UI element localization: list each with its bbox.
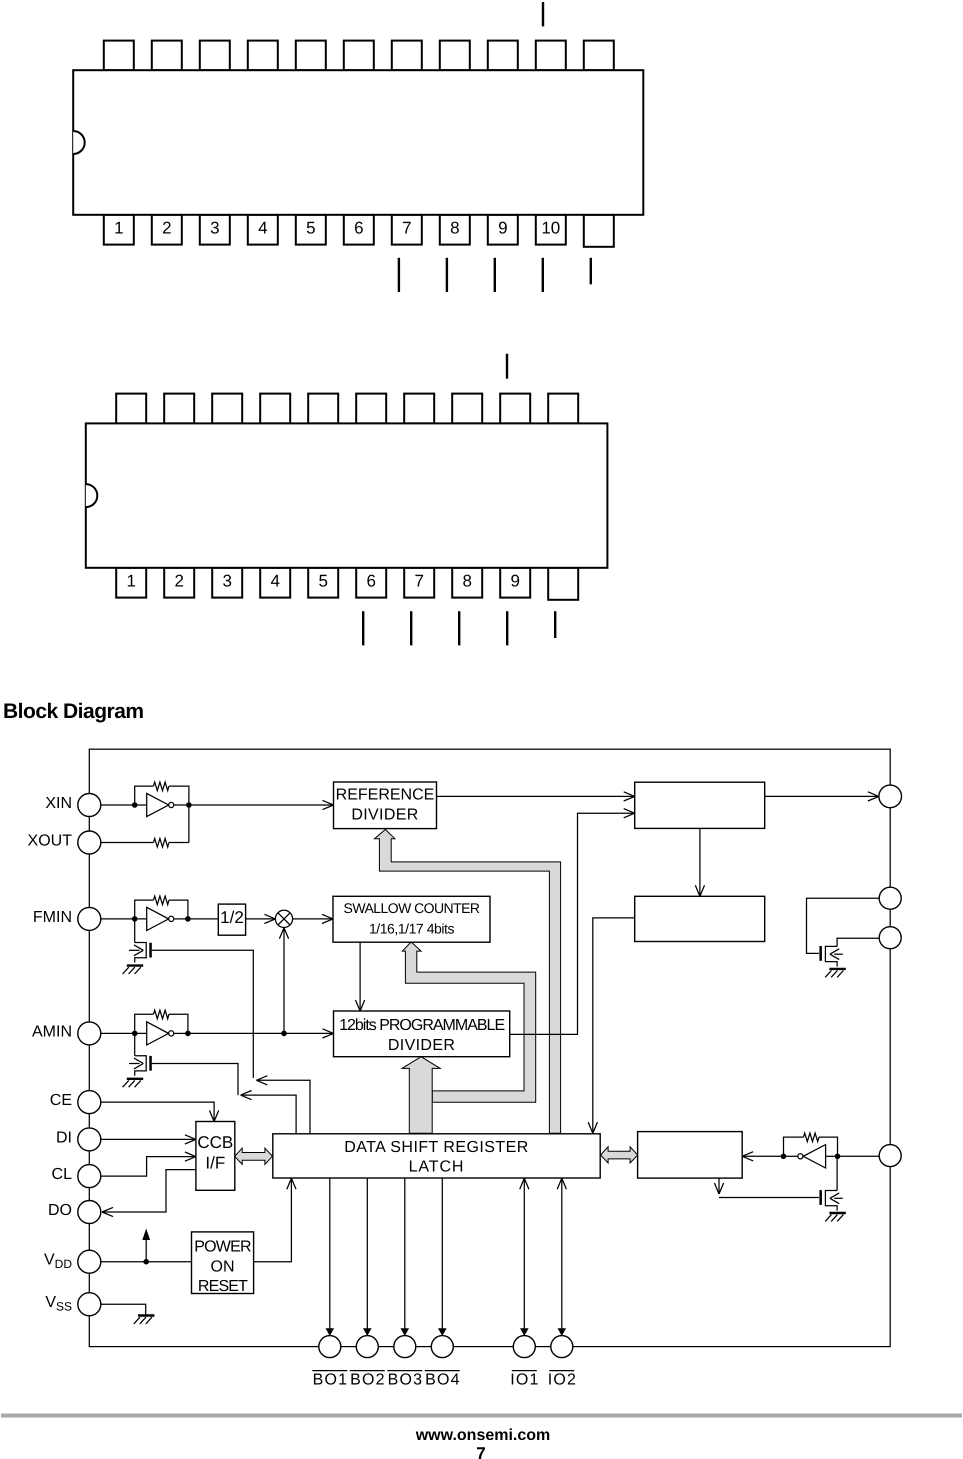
wire Q2 drain to control: [152, 1064, 238, 1096]
wire CL to CCB I/F: [101, 1157, 196, 1177]
svg-text:ON: ON: [211, 1259, 235, 1276]
block SWALLOW COUNTER: [333, 896, 490, 942]
block CCB I/F: [196, 1122, 235, 1191]
wire POWER ON RESET to DATA: [254, 1178, 292, 1261]
svg-text:8: 8: [462, 572, 471, 591]
node BO2: [356, 1336, 378, 1358]
wire FMIN out to 1/2: [188, 918, 218, 920]
package 1 index notch: [73, 131, 85, 154]
wire osc to REFERENCE DIVIDER: [189, 804, 334, 806]
svg-text:SWALLOW COUNTER: SWALLOW COUNTER: [344, 900, 480, 916]
wire pin to Q3 gate: [807, 898, 880, 953]
svg-text:1: 1: [114, 219, 123, 238]
resistor R4 (U3 feedback): [154, 1010, 169, 1019]
bus DATA to 12bits PROGRAMMABLE DIVIDER: [402, 1057, 440, 1134]
bus DATA to right latch box (bidirectional): [601, 1147, 638, 1163]
package 2 body: [86, 423, 608, 567]
node DI: [78, 1128, 101, 1151]
node AMIN: [78, 1022, 101, 1045]
svg-text:DIVIDER: DIVIDER: [388, 1037, 455, 1054]
svg-text:7: 7: [414, 572, 423, 591]
svg-text:Block Diagram: Block Diagram: [3, 700, 144, 723]
svg-text:DATA SHIFT REGISTER: DATA SHIFT REGISTER: [344, 1139, 529, 1156]
ground (Q4 source): [825, 1213, 846, 1221]
node dot FMIN output: [185, 916, 191, 922]
svg-text:8: 8: [450, 219, 459, 238]
svg-text:www.onsemi.com: www.onsemi.com: [415, 1427, 551, 1444]
resistor R5 (U5 feedback): [784, 1133, 838, 1156]
wire feedback left leg: [135, 786, 154, 805]
wire DI to CCB I/F: [101, 1138, 196, 1140]
svg-text:CL: CL: [52, 1166, 73, 1183]
node VDD: [78, 1250, 101, 1273]
wire FMIN to inverter: [101, 918, 147, 920]
wire output latch to Q4 gate: [718, 1178, 720, 1194]
node pin (right, upper): [879, 887, 901, 909]
block DATA SHIFT REGISTER / LATCH: [273, 1134, 600, 1178]
node dot mixer tap: [281, 1031, 287, 1037]
bus DATA to REFERENCE DIVIDER: [375, 830, 561, 1134]
package 1 leader ticks below pins 7-11: [398, 258, 400, 292]
node IO2 buffered: [879, 1145, 901, 1167]
inverter U5 (input buffer): [803, 1145, 825, 1168]
node CL: [78, 1165, 101, 1188]
wire IO2 pin to inverter U5: [838, 1155, 880, 1157]
wire U5 to output latch box: [742, 1155, 783, 1157]
transistor Q4: [819, 1190, 842, 1211]
package 2 leader ticks below pins 6-10: [362, 611, 364, 645]
svg-text:9: 9: [510, 572, 519, 591]
svg-text:VSS: VSS: [45, 1294, 72, 1314]
wire VDD supply stub: [145, 1239, 147, 1262]
svg-text:BO2: BO2: [350, 1372, 386, 1389]
mixer M1: [275, 910, 292, 927]
svg-text:XOUT: XOUT: [28, 833, 73, 850]
wire DATA control to Q2 drain line: [241, 1095, 297, 1133]
svg-text:BO3: BO3: [388, 1372, 424, 1389]
label IO1: [510, 1371, 539, 1389]
node PD out: [879, 785, 902, 808]
wire AMIN to inverter: [101, 1032, 147, 1034]
package 1 leader tick above pin 21: [542, 2, 544, 26]
svg-text:1/16,1/17 4bits: 1/16,1/17 4bits: [369, 921, 455, 937]
bus DATA branch to SWALLOW COUNTER: [402, 942, 535, 1102]
label BO2: [350, 1371, 386, 1389]
node IO2: [551, 1336, 573, 1358]
svg-text:2: 2: [162, 219, 171, 238]
node BO1: [319, 1336, 341, 1358]
svg-text:12bits PROGRAMMABLE: 12bits PROGRAMMABLE: [339, 1017, 504, 1034]
svg-text:6: 6: [366, 572, 375, 591]
svg-text:BO4: BO4: [425, 1372, 461, 1389]
block 1/2 prescaler: [218, 904, 245, 935]
svg-text:IO1: IO1: [510, 1372, 539, 1389]
wire VSS to ground: [101, 1304, 146, 1315]
svg-text:AMIN: AMIN: [32, 1023, 72, 1040]
resistor R2 (XOUT leg): [154, 839, 169, 848]
bus CCB I/F to DATA SHIFT REGISTER (bidirectional): [235, 1148, 273, 1164]
wire phase detector to PD pin: [765, 795, 879, 797]
wire U3 out to node: [174, 1032, 188, 1034]
svg-text:4: 4: [258, 219, 267, 238]
label BO4: [425, 1371, 461, 1389]
svg-text:1/2: 1/2: [220, 908, 244, 927]
wire U2 feedback left leg: [135, 900, 154, 919]
svg-text:POWER: POWER: [194, 1239, 251, 1256]
block REFERENCE DIVIDER: [334, 782, 437, 829]
transistor Q2 (AMIN mute switch): [129, 1033, 152, 1075]
ground (Q3 source): [825, 969, 846, 977]
node dot AMIN output: [185, 1031, 191, 1037]
package 2 bottom pins: [116, 568, 578, 600]
wire U3 feedback right leg: [169, 1014, 188, 1033]
node dot VDD: [143, 1259, 149, 1265]
node CE: [78, 1091, 101, 1114]
wire 12bits divider to phase detector: [510, 813, 635, 1034]
package 1 pin numbers: [114, 219, 560, 238]
wire VDD to POWER ON RESET: [101, 1261, 192, 1263]
package 2 pin numbers: [126, 572, 519, 591]
label BO1: [312, 1371, 348, 1389]
svg-text:4: 4: [270, 572, 279, 591]
transistor Q3: [819, 946, 842, 967]
wire U1 output to node: [174, 804, 189, 806]
node BO4: [431, 1336, 453, 1358]
package 1 top pins: [104, 41, 614, 71]
node pin (right, lower): [879, 927, 901, 949]
svg-text:I/F: I/F: [205, 1153, 225, 1172]
wire CE to CCB I/F: [101, 1102, 214, 1121]
wire REFERENCE DIVIDER to phase detector: [437, 795, 635, 797]
svg-text:XIN: XIN: [45, 795, 72, 812]
wire U3 feedback left leg: [135, 1014, 154, 1033]
svg-text:1: 1: [126, 572, 135, 591]
wire mixer tap up: [283, 928, 285, 1034]
svg-text:5: 5: [306, 219, 315, 238]
package 1 body: [73, 70, 643, 215]
wire R2 to node: [169, 842, 189, 844]
svg-text:BO1: BO1: [313, 1372, 349, 1389]
node dot XIN output: [186, 802, 192, 808]
wire DATA to BO2: [366, 1178, 368, 1332]
wire SWALLOW to 12bits divider: [359, 942, 361, 1011]
wire mixer to SWALLOW COUNTER: [293, 918, 333, 920]
svg-text:LATCH: LATCH: [409, 1159, 465, 1176]
inverter U3 (AMIN amp): [147, 1022, 169, 1045]
outer border: [89, 749, 890, 1346]
block phase detector (right top): [635, 782, 765, 828]
svg-text:3: 3: [210, 219, 219, 238]
wire 1/2 to mixer: [246, 918, 276, 920]
node XIN: [78, 794, 101, 817]
ground (Q2 source): [123, 1079, 144, 1087]
node dot U5 input: [835, 1154, 841, 1160]
wire phase detector to charge pump box: [699, 828, 701, 896]
footer rule: [1, 1414, 962, 1418]
svg-text:6: 6: [354, 219, 363, 238]
wire Q4 drain to node: [836, 1156, 838, 1190]
wire Q3 drain to pin: [837, 938, 879, 946]
package 1 bottom pins: [104, 215, 614, 247]
transistor Q1 (FMIN mute switch): [129, 919, 152, 963]
label BO3: [387, 1371, 423, 1389]
svg-text:DI: DI: [56, 1129, 72, 1146]
svg-text:10: 10: [541, 219, 560, 238]
svg-text:REFERENCE: REFERENCE: [336, 787, 435, 804]
wire charge pump to DATA: [593, 918, 635, 1133]
wire feedback right leg: [169, 786, 189, 842]
svg-text:9: 9: [498, 219, 507, 238]
svg-text:CCB: CCB: [197, 1133, 233, 1152]
svg-text:7: 7: [402, 219, 411, 238]
block 12bits PROGRAMMABLE DIVIDER: [334, 1011, 510, 1057]
wire AMIN to 12bits divider: [188, 1032, 334, 1034]
block output latch (right bottom): [638, 1132, 743, 1179]
resistor R1 (osc feedback): [154, 782, 169, 791]
svg-text:2: 2: [174, 572, 183, 591]
label IO2: [548, 1371, 577, 1389]
package 2 leader tick above pin 9 area: [506, 354, 508, 379]
node dot XIN input: [132, 802, 138, 808]
wire DATA to IO2 (bidirectional): [561, 1178, 563, 1332]
svg-text:CE: CE: [50, 1092, 72, 1109]
svg-text:IO2: IO2: [548, 1372, 577, 1389]
node FMIN: [78, 907, 101, 930]
svg-text:FMIN: FMIN: [33, 909, 72, 926]
svg-text:VDD: VDD: [44, 1252, 72, 1272]
wire U5 out to node: [784, 1155, 798, 1157]
wire DATA control to Q1 drain line: [256, 1080, 310, 1133]
inverter U2 (FMIN amp): [147, 907, 169, 930]
wire DATA to BO3: [404, 1178, 406, 1332]
node dot U5 output: [781, 1154, 787, 1160]
package 2 index notch: [86, 484, 98, 507]
wire DATA to BO4: [441, 1178, 443, 1332]
node dot AMIN input: [132, 1031, 138, 1037]
node BO3: [394, 1336, 416, 1358]
resistor R3 (U2 feedback): [154, 896, 169, 905]
inverter U1 (crystal osc): [147, 793, 169, 816]
package 2 top pins: [116, 394, 578, 424]
wire DATA to IO1 (bidirectional): [523, 1178, 525, 1332]
ground (Q1 source): [123, 966, 144, 974]
wire U2 feedback right leg: [169, 900, 188, 919]
block charge pump (right middle): [635, 896, 765, 941]
wire U2 out to node: [174, 918, 188, 920]
wire DATA to BO1: [329, 1178, 331, 1332]
svg-text:5: 5: [318, 572, 327, 591]
node IO1: [513, 1336, 535, 1358]
svg-text:DIVIDER: DIVIDER: [351, 806, 418, 823]
wire Q1 drain to control: [152, 950, 254, 1078]
block POWER ON RESET: [192, 1232, 254, 1294]
svg-text:3: 3: [222, 572, 231, 591]
wire XIN to inverter: [101, 804, 147, 806]
svg-text:7: 7: [476, 1444, 485, 1459]
ground (VSS): [134, 1316, 155, 1324]
node DO: [78, 1201, 101, 1224]
svg-text:RESET: RESET: [198, 1278, 248, 1295]
svg-text:DO: DO: [48, 1202, 72, 1219]
node XOUT: [78, 831, 101, 854]
node VSS: [78, 1293, 101, 1316]
node dot FMIN input: [132, 916, 138, 922]
wire XOUT to resistor: [101, 842, 154, 844]
wire CCB I/F to DO: [102, 1170, 196, 1212]
